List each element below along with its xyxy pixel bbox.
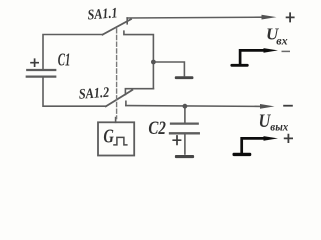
- arrowhead of bottom rail: [260, 104, 275, 109]
- svg-text:SA1.1: SA1.1: [87, 5, 118, 23]
- wire left-top from C1 top to SA1.1 pivot: [43, 35, 103, 70]
- svg-text:C2: C2: [148, 119, 166, 139]
- wire ground branch from middle net: [153, 62, 184, 76]
- wire top output rail: [127, 16, 263, 19]
- switch SA1.2 lower fixed contact: [125, 101, 127, 105]
- svg-text:C1: C1: [58, 50, 71, 70]
- svg-text:вых: вых: [270, 119, 288, 133]
- plus sign at Uvyx probe: [284, 134, 293, 143]
- switch SA1.1 blade: [103, 19, 132, 35]
- arrowhead of top rail: [262, 15, 277, 20]
- generator pulse symbol: [113, 137, 127, 145]
- svg-text:G: G: [103, 125, 114, 147]
- ground bar below C2: [175, 155, 194, 158]
- wire bottom-left from C1 bottom to SA1.2 pivot: [43, 77, 106, 107]
- generator G box: [98, 122, 134, 155]
- svg-text:SA1.2: SA1.2: [78, 85, 110, 103]
- switch SA1.2 upper fixed contact hook and wire to middle net: [125, 89, 153, 95]
- wire bottom output rail: [126, 105, 262, 108]
- capacitor C1 plates: [27, 70, 55, 77]
- junction node at C2 top: [183, 104, 188, 109]
- switch SA1.2 blade: [106, 90, 133, 106]
- capacitor C2 bottom lead: [184, 133, 186, 154]
- capacitor C2 plates: [170, 124, 199, 134]
- probe arrow of Uvx (to minus): [240, 50, 264, 64]
- svg-text:вх: вх: [276, 36, 288, 48]
- capacitor C2 plus polarity mark: [172, 135, 181, 145]
- plus sign at top rail output: [286, 12, 295, 22]
- minus sign at Uvx probe: [282, 50, 291, 52]
- switch SA1.1 lower fixed contact and wire to middle net: [124, 31, 153, 88]
- capacitor C1 plus polarity mark: [30, 58, 39, 67]
- probe arrow of Uvyx (to plus): [242, 138, 265, 153]
- minus sign at bottom rail output: [283, 105, 293, 107]
- probe foot bar of Uvyx: [233, 153, 252, 156]
- generator G lead to link: [115, 118, 117, 123]
- probe foot bar of Uvx: [230, 64, 248, 67]
- ground bar of middle net: [175, 76, 194, 79]
- capacitor C2 top lead: [184, 106, 186, 123]
- switch SA1.1 upper fixed contact hook: [126, 18, 128, 24]
- mechanical link (dashed): [116, 29, 118, 119]
- junction node at middle net: [151, 60, 156, 65]
